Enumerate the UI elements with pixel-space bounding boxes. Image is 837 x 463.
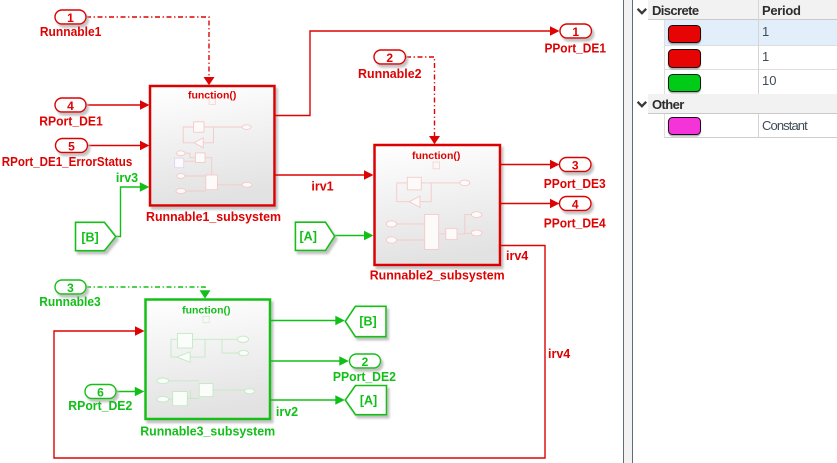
svg-text:5: 5 [68, 139, 75, 153]
svg-text:1: 1 [67, 11, 74, 25]
svg-text:PPort_DE2: PPort_DE2 [333, 370, 396, 384]
svg-text:1: 1 [572, 25, 579, 39]
svg-text:[B]: [B] [359, 314, 376, 328]
svg-text:RPort_DE1_ErrorStatus: RPort_DE1_ErrorStatus [2, 155, 133, 169]
svg-text:function(): function() [412, 150, 460, 162]
svg-text:irv2: irv2 [276, 405, 298, 419]
svg-text:Runnable2: Runnable2 [358, 67, 422, 81]
svg-text:Runnable3_subsystem: Runnable3_subsystem [140, 424, 275, 438]
svg-text:irv4: irv4 [548, 347, 570, 361]
svg-text:[A]: [A] [360, 394, 377, 408]
svg-text:irv3: irv3 [116, 171, 138, 185]
svg-text:function(): function() [182, 304, 230, 316]
svg-text:[B]: [B] [81, 230, 98, 244]
svg-text:6: 6 [97, 385, 104, 399]
svg-text:RPort_DE2: RPort_DE2 [68, 399, 132, 413]
svg-text:function(): function() [188, 90, 236, 102]
svg-text:[A]: [A] [300, 230, 317, 244]
svg-text:PPort_DE3: PPort_DE3 [544, 177, 606, 191]
svg-text:4: 4 [67, 99, 74, 113]
svg-text:2: 2 [362, 355, 369, 369]
svg-text:Runnable1: Runnable1 [40, 25, 102, 39]
svg-text:Runnable2_subsystem: Runnable2_subsystem [370, 268, 505, 282]
svg-text:4: 4 [572, 197, 579, 211]
svg-text:PPort_DE1: PPort_DE1 [544, 42, 606, 56]
svg-text:irv1: irv1 [311, 179, 333, 193]
svg-text:Runnable3: Runnable3 [39, 295, 101, 309]
svg-text:Runnable1_subsystem: Runnable1_subsystem [146, 210, 281, 224]
svg-text:3: 3 [67, 281, 74, 295]
svg-text:3: 3 [572, 158, 579, 172]
svg-text:2: 2 [386, 51, 393, 65]
svg-text:irv4: irv4 [506, 249, 528, 263]
svg-text:RPort_DE1: RPort_DE1 [39, 114, 103, 128]
svg-text:PPort_DE4: PPort_DE4 [544, 216, 606, 230]
